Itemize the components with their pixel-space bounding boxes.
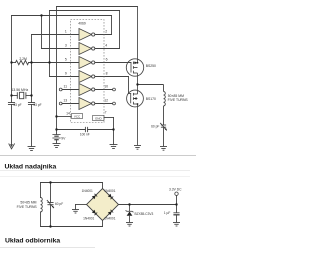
svg-text:8: 8 [106, 72, 108, 76]
svg-text:3.3V DC: 3.3V DC [169, 187, 182, 191]
wire output drop [176, 195, 178, 212]
junction dots receiver [49, 181, 177, 227]
diode bridge D1-D4 diamond [87, 189, 119, 221]
svg-text:3: 3 [65, 44, 67, 48]
transistor Q1 BS250 [126, 7, 143, 85]
wire +9V rail x=56.5 [56, 7, 58, 135]
ground (mid rail) [28, 146, 35, 148]
wire GND pin7 [104, 117, 114, 119]
value labels transmitter [11, 57, 188, 140]
VCC box pin 14 [72, 114, 83, 119]
wire VCC pin14 [57, 116, 72, 118]
svg-text:100 nF: 100 nF [80, 133, 90, 137]
op-amp U1F inverter 6 [79, 98, 95, 110]
svg-text:33 pF: 33 pF [13, 103, 21, 107]
ground (battery) [53, 143, 60, 145]
wire rail x=41.5 [41, 16, 43, 49]
wire left rail x=11.5 [11, 16, 13, 103]
op-amp U1A inverter 1 [79, 29, 95, 41]
IC U1 4069 dashed box [71, 20, 105, 123]
svg-text:2.2M: 2.2M [19, 57, 27, 61]
wire pin11 input stub [62, 89, 79, 91]
svg-text:9V: 9V [61, 136, 66, 140]
svg-text:5: 5 [65, 58, 67, 62]
svg-text:FIVE TURNS: FIVE TURNS [17, 205, 38, 209]
wire bridge right corner / mid rail y=204.5 [119, 204, 177, 206]
ground arrow (left rail) [9, 144, 15, 149]
wire H2 feedback loop y=10.5 [50, 10, 120, 12]
svg-text:2: 2 [105, 30, 107, 34]
svg-text:BS170: BS170 [146, 97, 156, 101]
wire H1 +9V top loop y=6.5 [57, 6, 138, 8]
svg-text:FIVE TURNS: FIVE TURNS [168, 98, 189, 102]
svg-text:BZX85-C3V3: BZX85-C3V3 [135, 212, 154, 216]
zener diode D5 BZX85 [126, 205, 134, 223]
GND box pin 7 [93, 116, 105, 121]
op-amp U1C inverter 3 [79, 57, 95, 69]
diode D3 (bottom-left edge) [92, 210, 96, 214]
svg-text:9: 9 [65, 72, 67, 76]
wire pin1 input row [32, 34, 80, 36]
svg-text:13.56 MHz: 13.56 MHz [11, 88, 28, 92]
diode D2 (top-right edge) [108, 194, 112, 198]
diode D4 (bottom-right edge) [108, 211, 112, 215]
junction dots transmitter [10, 14, 138, 130]
svg-text:1N4001: 1N4001 [82, 189, 93, 193]
wire pin12 output stub [95, 103, 113, 105]
wire receiver top y=182.5 [41, 182, 103, 184]
svg-text:VCC: VCC [74, 115, 81, 119]
op-amp U1D inverter 4 [79, 71, 95, 83]
ground (BS170 source) [134, 146, 141, 150]
svg-text:11: 11 [64, 85, 68, 89]
node output terminal 3.3V [175, 192, 178, 195]
svg-text:1: 1 [65, 30, 67, 34]
svg-text:14: 14 [66, 112, 70, 116]
ground (output cap) [173, 223, 180, 227]
capacitor C5 60pF trimmer (receiver) [50, 183, 52, 203]
svg-text:60 pF: 60 pF [55, 202, 63, 206]
svg-text:GND: GND [95, 117, 103, 121]
wire pin8 output to BS170 gate [95, 76, 129, 78]
ground (antenna trimmer) [160, 147, 167, 151]
svg-text:4069: 4069 [78, 21, 86, 25]
wire pin10 output stub [95, 89, 113, 91]
svg-text:1N4001: 1N4001 [104, 217, 115, 221]
wire bridge left corner to ground [76, 204, 87, 206]
svg-text:33 pF: 33 pF [33, 103, 41, 107]
wire receiver bottom y=226.5 [41, 226, 103, 228]
svg-text:10: 10 [104, 85, 108, 89]
diode D1 (top-left edge) [92, 195, 96, 199]
wire pin2 output row [95, 34, 112, 36]
bridge stubs [102, 183, 104, 189]
inductor L2 receiver coil rail [40, 183, 42, 198]
ground (zener) [126, 223, 133, 227]
svg-text:6: 6 [106, 58, 108, 62]
inductor L1 antenna coil [164, 92, 166, 106]
svg-text:7: 7 [105, 111, 107, 115]
svg-text:Układ nadajnika: Układ nadajnika [5, 163, 57, 170]
crystal X1 plates and box [16, 93, 18, 99]
op-amp U1E inverter 5 [79, 84, 95, 96]
capacitor C1 33pF plates (left rail) [8, 102, 14, 104]
capacitor C2 33pF plates (mid rail) [28, 102, 34, 104]
wire pin13 input stub [62, 103, 79, 105]
resistor R1 2.2M zigzag [16, 60, 29, 64]
wire rail x=49.5 [49, 11, 51, 77]
svg-text:13: 13 [63, 99, 67, 103]
svg-text:4: 4 [105, 44, 107, 48]
wire pin9 input row [50, 76, 80, 78]
value labels receiver [17, 187, 182, 220]
caption: Układ nadajnika [0, 155, 196, 157]
node open terminals pins 11,13,10,12 [59, 88, 115, 105]
capacitor C6 1uF [173, 213, 179, 223]
wire pin5 input row with resistor [12, 62, 16, 64]
wire pin3 input row [42, 48, 80, 50]
transistor Q2 BS170 [127, 85, 144, 146]
wire pin6 output to BS250 gate [95, 62, 131, 64]
ground (bridge left) [72, 210, 79, 214]
wire pin4 output row [95, 48, 120, 50]
pin number labels [63, 30, 108, 116]
ground (IC pin7) [110, 144, 117, 146]
wire 100nF line y=129.5 [57, 129, 86, 131]
wire FET junction to antenna [138, 85, 168, 147]
crystal X1 leads [12, 95, 18, 97]
svg-text:BS250: BS250 [146, 64, 156, 68]
svg-text:Układ odbiornika: Układ odbiornika [5, 237, 60, 244]
svg-text:60 pF: 60 pF [151, 125, 159, 129]
svg-text:1 µF: 1 µF [164, 211, 170, 215]
op-amp U1B inverter 2 [79, 43, 95, 55]
svg-text:1N4001: 1N4001 [83, 217, 94, 221]
capacitor C3 100nF plates [84, 127, 86, 131]
capacitor C4 60pF trimmer [161, 124, 166, 126]
wire mid rail x=31.5 [31, 35, 33, 103]
svg-text:1N4001: 1N4001 [104, 189, 115, 193]
battery BT1 9V plates [53, 134, 60, 136]
svg-text:12: 12 [104, 99, 108, 103]
wire H3 node-A loop y=15.5 [12, 15, 112, 17]
